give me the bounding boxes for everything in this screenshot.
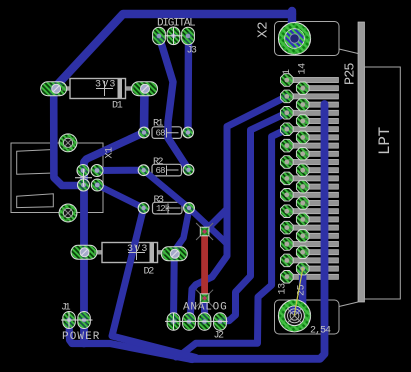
svg-text:68: 68 — [156, 166, 166, 176]
svg-text:ANALOG: ANALOG — [183, 301, 228, 313]
svg-text:D2: D2 — [144, 267, 155, 278]
svg-text:3V3: 3V3 — [95, 80, 117, 91]
svg-text:D1: D1 — [112, 101, 123, 112]
svg-text:DIGITAL: DIGITAL — [157, 18, 195, 30]
svg-text:2,54: 2,54 — [310, 326, 331, 337]
svg-text:13: 13 — [278, 283, 289, 295]
svg-text:X1: X1 — [105, 147, 116, 159]
svg-text:J2: J2 — [214, 331, 224, 342]
svg-text:P25: P25 — [344, 63, 359, 85]
svg-text:LPT: LPT — [376, 127, 394, 155]
svg-text:POWER: POWER — [62, 331, 101, 343]
svg-text:1: 1 — [282, 69, 293, 75]
svg-text:X2: X2 — [256, 22, 272, 38]
svg-text:12k: 12k — [156, 204, 170, 214]
svg-text:3V3: 3V3 — [127, 244, 149, 255]
svg-text:14: 14 — [298, 63, 309, 75]
svg-text:68: 68 — [156, 129, 166, 139]
